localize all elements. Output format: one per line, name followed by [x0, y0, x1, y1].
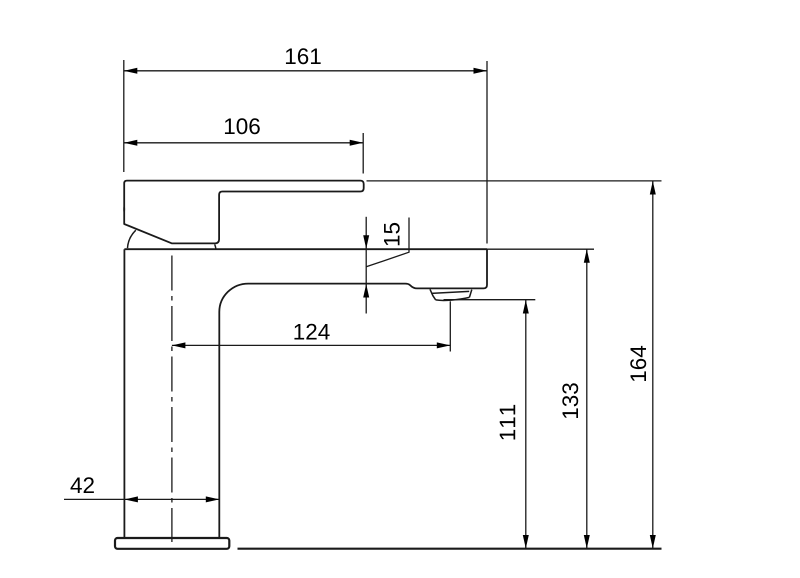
faucet handle and lever outline — [124, 181, 364, 244]
arrowhead 161 right — [474, 68, 488, 74]
dimension line 124 — [172, 344, 450, 346]
counter surface line — [238, 548, 662, 550]
label 161 — [286, 48, 321, 64]
label 133 (rotated) — [562, 383, 578, 418]
arrowhead 161 left — [124, 68, 138, 74]
arrowhead 15 upper — [363, 235, 369, 249]
base plate — [115, 538, 229, 549]
label 124 — [294, 324, 329, 340]
body and spout right outline — [219, 249, 487, 538]
arrowhead 111 bottom — [523, 535, 529, 549]
aerator inner ring line — [431, 291, 469, 293]
leader line 15 — [366, 218, 409, 267]
handle-to-body connector tick — [215, 244, 216, 249]
dimension line 133 (vertical) — [586, 249, 588, 548]
extension line 161 right — [486, 61, 488, 244]
arrowhead 106 right — [350, 140, 364, 146]
dimension line 164 (vertical) — [652, 181, 654, 549]
arrowhead 133 top — [584, 249, 590, 263]
extension line 124 right — [449, 301, 451, 351]
extension line for 133 (body top, rightward) — [487, 248, 594, 250]
arrowhead 42 left — [124, 496, 137, 502]
body left edge — [123, 249, 125, 538]
handle left edge lens detail — [123, 204, 125, 215]
arrowhead 133 bottom — [584, 535, 590, 549]
label 15 (rotated) — [384, 223, 400, 245]
dimension line 106 — [124, 142, 363, 144]
arrowhead 124 right — [437, 342, 451, 348]
arrowhead 164 top — [650, 181, 656, 195]
dimension line 42 — [64, 498, 219, 500]
arrowhead 106 left — [124, 140, 138, 146]
aerator bottom curve — [436, 297, 470, 300]
extension line 106 right — [362, 133, 364, 174]
aerator left edge — [430, 289, 436, 300]
aerator right edge — [469, 290, 471, 298]
body top line — [124, 248, 487, 250]
extension line 161/106 left — [123, 60, 125, 172]
dimension line 111 (vertical) — [525, 300, 527, 549]
arrowhead 164 bottom — [650, 535, 656, 549]
label 164 (rotated) — [630, 346, 646, 381]
dimension line 15 (vertical) — [365, 217, 367, 314]
label 111 (rotated) — [500, 405, 515, 440]
vertical centerline (dash-dot) — [171, 256, 173, 543]
arrowhead 111 top — [523, 300, 529, 314]
dimension line 161 — [124, 70, 487, 72]
extension line 164 (handle top, rightward) — [367, 180, 662, 182]
label 42 — [71, 477, 94, 493]
label 106 — [225, 118, 260, 134]
arrowhead 42 right — [206, 496, 220, 502]
handle front arc — [128, 230, 136, 248]
arrowhead 124 left — [172, 342, 186, 348]
arrowhead 15 lower — [363, 284, 369, 298]
extension line 111 (aerator bottom, rightward) — [444, 299, 536, 301]
